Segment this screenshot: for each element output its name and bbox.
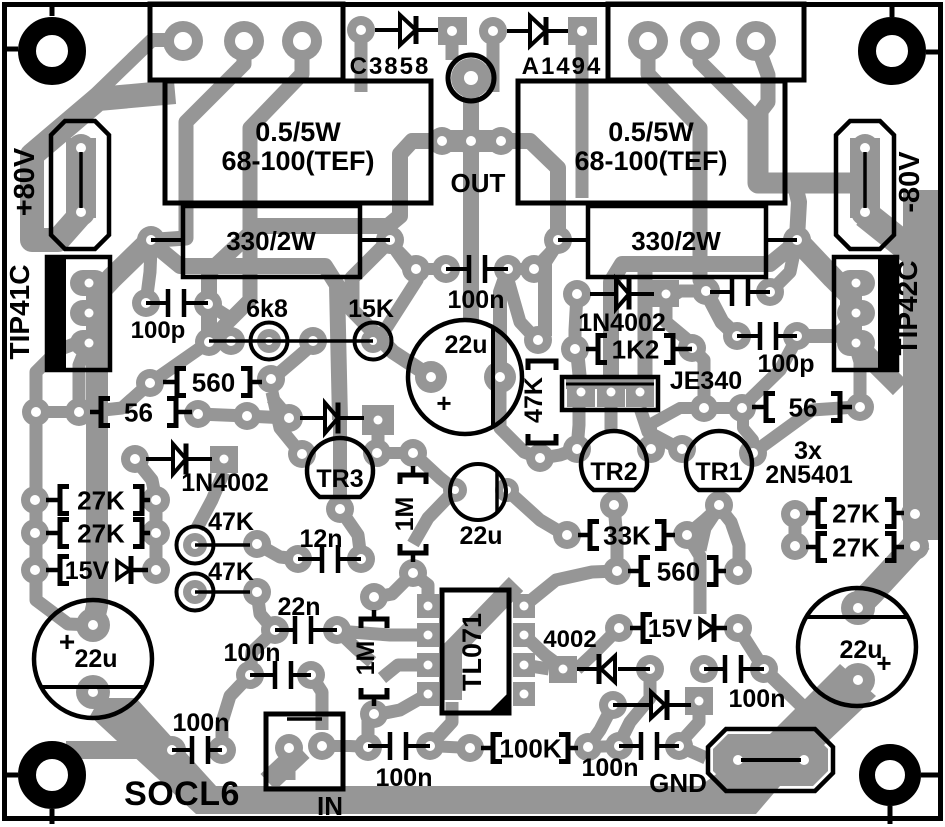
pad OUT ring: [448, 55, 494, 101]
pour 22u-3 to GND: [760, 664, 876, 762]
pad J2-2: [680, 21, 720, 61]
pad 1M-2 top: [360, 583, 388, 611]
resistor 100K: [481, 746, 493, 751]
pad +80V 2: [67, 198, 95, 226]
pad 22u-2 +: [443, 478, 467, 502]
pad 56-1 right: [184, 400, 212, 428]
capacitor 22u-2: [450, 464, 506, 520]
zener 15V-2: [643, 615, 652, 642]
pad 1K2 right: [678, 334, 706, 362]
wire JE340 pin3 to TR1: [640, 408, 678, 448]
wire hole BL stub bottom: [50, 809, 55, 824]
trimmer 6k8: [251, 323, 288, 360]
resistor R-emitter-2 0.5/5W: [518, 81, 785, 203]
resistor 27K-3: [806, 511, 818, 516]
svg-text:TR1: TR1: [695, 458, 742, 486]
pad D4 anode: [563, 280, 591, 308]
pad 6k8 wiper: [257, 329, 281, 353]
pad -80V 2: [851, 198, 879, 226]
pad 22u-4 -: [76, 675, 110, 709]
wire 100n to 330 right: [534, 244, 558, 269]
wire C-r1 left stub: [666, 291, 706, 300]
wire 1N4002-1 cathode to 47K: [197, 472, 224, 528]
wire R330-1 lead right: [360, 238, 390, 242]
wire -80V to right band: [865, 214, 920, 258]
svg-text:100n: 100n: [376, 764, 433, 792]
pad TL071 pin7: [513, 623, 535, 647]
wire left bus through 27K pads: [36, 410, 93, 625]
wire 330/2W right pad down to 22u: [352, 240, 431, 377]
transistor TIP41C body: [47, 257, 110, 370]
pad 100n-lm l: [236, 661, 264, 689]
svg-text:2N5401: 2N5401: [765, 461, 853, 489]
wire TL071 pin2 left: [380, 694, 428, 714]
wire 22u-1 right down: [500, 377, 540, 458]
wire -80V pad strip: [850, 138, 880, 218]
wire 56-2 left pads: [704, 402, 742, 414]
svg-text:56: 56: [124, 398, 153, 428]
pad 560-1 right: [257, 365, 285, 393]
pad 22u-3 +: [841, 591, 875, 625]
pad 22n l: [261, 616, 289, 644]
svg-text:47K: 47K: [208, 508, 254, 536]
wire 100n mid left pair: [416, 263, 446, 275]
wire out center column: [463, 92, 479, 322]
pad OUT row 3: [487, 127, 515, 155]
wire 15V-2 left to diode pad: [577, 628, 619, 669]
pad 47K-2 right: [243, 578, 271, 606]
pad 27K-4 l: [781, 532, 809, 560]
pad TR2 b: [600, 491, 628, 519]
svg-text:+80V: +80V: [9, 147, 41, 216]
wire 330/2W left to rail: [93, 240, 151, 623]
pad 22u-2 -: [495, 478, 519, 502]
svg-text:TR2: TR2: [590, 458, 637, 486]
wire 100n mid right pair: [508, 263, 534, 275]
capacitor 100n right: [704, 667, 725, 671]
svg-text:A1494: A1494: [522, 53, 603, 80]
wire 330-2 rail to JE340 pin3: [641, 268, 645, 390]
pad 6k8-15K mid: [299, 327, 327, 355]
pad TL071 pin5: [513, 682, 535, 706]
pad 22u-4 +: [76, 608, 110, 642]
wire 330-2 left to 47K top: [545, 242, 558, 336]
wire 56 left link: [36, 406, 79, 418]
pad TL071 pin3: [417, 653, 439, 677]
diode D3 1N4002 left: [146, 457, 173, 461]
wire 330/2W-2 left to rail: [797, 240, 851, 330]
pad 27K-1 r: [142, 486, 170, 514]
wire +80V wide rail: [32, 92, 175, 240]
pad 12n l: [284, 545, 312, 573]
pad -80V 1: [851, 134, 879, 162]
pad TR2 e: [563, 435, 591, 463]
wire 100K right pads: [588, 746, 619, 747]
pad TL071 pin8: [513, 594, 535, 618]
wire 47K-2 to 22n: [257, 592, 272, 628]
pad 27K-1 l: [21, 486, 49, 514]
pad TIP41C 2: [70, 300, 108, 326]
pad TIP42C 2: [837, 300, 875, 326]
svg-text:1N4002: 1N4002: [578, 309, 666, 337]
pad IN 1: [275, 734, 303, 762]
pad TIP42C 3: [837, 330, 875, 356]
pad OUT row 2: [457, 127, 485, 155]
pad TL071 pin4: [417, 682, 439, 706]
pad 100n-b l: [354, 733, 382, 761]
capacitor 22u-4: [34, 600, 152, 718]
connector -80V: [836, 121, 894, 249]
resistor 330/2W left: [183, 206, 360, 277]
svg-text:15V: 15V: [648, 615, 693, 643]
wire 100n-r to pour: [764, 669, 818, 722]
diode D1 C3858 drive: [375, 28, 400, 32]
wire TR3 vertical: [333, 420, 347, 505]
pad TR3 e: [288, 440, 316, 468]
capacitor 100n left-mid: [250, 673, 275, 677]
pad OUT: [451, 58, 491, 98]
diode D6 4002a: [577, 667, 597, 671]
pad J1-3: [282, 21, 322, 61]
pad 56-2 left: [728, 394, 756, 422]
capacitor 100p left: [146, 301, 168, 305]
wire 100n-bl chain: [222, 675, 250, 750]
pad 22u-1 -: [484, 361, 516, 393]
pad C-r1 right: [756, 278, 784, 306]
pad node A: [195, 328, 223, 356]
resistor 1K2: [586, 347, 598, 352]
capacitor 12n: [298, 557, 322, 561]
pad D7 cathode: [685, 687, 713, 715]
pad TR3 b: [326, 495, 354, 523]
svg-text:330/2W: 330/2W: [226, 226, 316, 256]
pad 560-2 l: [603, 557, 631, 585]
svg-text:4002: 4002: [543, 626, 596, 653]
connector GND lug: [708, 729, 833, 791]
wire TR1 base to node: [700, 507, 719, 550]
svg-text:22u: 22u: [74, 645, 117, 673]
diode D5: [300, 416, 325, 420]
pad TR1 e: [668, 435, 696, 463]
pad D6 anode: [636, 655, 664, 683]
wire R330-2 lead left: [558, 238, 588, 242]
wire TR1 base up: [743, 407, 753, 453]
pad 22n r: [323, 616, 351, 644]
pad J1-2: [224, 21, 264, 61]
regulator JE340 body: [562, 377, 658, 410]
wire TR1 collector down: [719, 507, 739, 570]
capacitor C-r1 right: [710, 290, 732, 294]
wire hole BL stub left: [2, 773, 18, 778]
svg-text:TIP42C: TIP42C: [892, 261, 923, 356]
pad J1-1: [163, 21, 203, 61]
wire connector J1 pad3 down: [209, 42, 302, 342]
svg-text:JE340: JE340: [670, 367, 742, 395]
pad JE340 1: [567, 377, 595, 407]
wire 1N4002-2 cathode down: [666, 296, 692, 348]
wire J2 pad3 down: [756, 42, 768, 115]
svg-text:100n: 100n: [582, 754, 639, 782]
svg-text:33K: 33K: [603, 521, 651, 551]
pad D3 anode: [121, 445, 149, 473]
svg-text:27K: 27K: [77, 519, 125, 549]
wire 100n-m to 22u-1: [500, 269, 508, 377]
wire A1494 anode tail: [576, 42, 589, 198]
svg-text:47K: 47K: [520, 377, 548, 423]
resistor 560-2: [628, 569, 641, 574]
wire 330/2W-2 right feed: [795, 185, 799, 238]
resistor 27K-2: [46, 531, 60, 536]
wire 22n right: [337, 630, 372, 662]
resistor 1M-1 vertical: [400, 475, 426, 484]
capacitor 22u-3: [798, 588, 916, 706]
wire diode D5 square down: [372, 434, 385, 453]
pad J2-1: [628, 21, 668, 61]
pad 33K l: [553, 521, 581, 549]
wire TR2 emitter up: [651, 408, 704, 449]
pad 47K-1 right: [243, 530, 271, 558]
wire TL071 pin3 left: [382, 665, 428, 678]
pad JE340 2: [597, 377, 625, 407]
wire 100n-b to TL071: [430, 702, 452, 746]
svg-text:27K: 27K: [77, 486, 125, 516]
svg-text:100p: 100p: [131, 317, 186, 344]
resistor 47K-1 vertical preset: [177, 527, 214, 564]
wire right band: [903, 190, 941, 540]
wire TL071 pin5 to 560-2: [524, 571, 617, 606]
pad 100n-m 4: [520, 255, 548, 283]
svg-text:56: 56: [789, 393, 818, 423]
pour ground bottom band: [90, 698, 792, 814]
wire -80V rail: [758, 112, 855, 183]
wire OUT row right: [501, 141, 558, 240]
pad GND 1: [724, 746, 752, 774]
pad TL071 pin6: [513, 653, 535, 677]
svg-text:68-100(TEF): 68-100(TEF): [221, 146, 374, 176]
pad IN 2: [308, 732, 336, 760]
pad 22u-1 +: [415, 361, 447, 393]
wire diode D5 left: [272, 398, 289, 418]
svg-text:22n: 22n: [277, 593, 320, 621]
pad 560-2 r: [724, 557, 752, 585]
transistor TR1: [686, 431, 752, 490]
resistor 56-1: [90, 410, 101, 415]
wire TL071 pin1 to 22n: [337, 630, 428, 635]
wire 22u-4 in: [85, 688, 101, 692]
pad 15V-2 r: [724, 614, 752, 642]
wire 330-2 bottom rail: [611, 242, 797, 390]
wire A1494 pad tail: [487, 43, 500, 92]
svg-text:+: +: [876, 648, 891, 678]
pad 100K l: [456, 734, 484, 762]
pad TIP42C 1: [837, 270, 875, 296]
trimmer 15K: [355, 323, 392, 360]
svg-text:560: 560: [192, 368, 235, 398]
pad J2-3: [736, 21, 776, 61]
capacitor 22n: [275, 628, 295, 632]
wire JE340 pin1 to TR2: [577, 393, 579, 449]
wire IN pour entry: [268, 750, 302, 782]
pad 47K-1 wiper: [183, 533, 207, 557]
wire TR3 right to 1M-1: [377, 447, 413, 459]
wire TL071 pin7 right: [524, 665, 549, 669]
wire OUT row to middle: [209, 141, 442, 342]
svg-text:100n: 100n: [224, 639, 281, 667]
pad D4 cathode: [652, 280, 679, 307]
wire C-r1 up to 330-2: [770, 248, 795, 292]
wire 56-1 to D5 anode: [198, 414, 287, 418]
pad 1M-2 bottom: [360, 700, 388, 728]
wire 1N4002-1 anode: [135, 459, 156, 500]
wire diode 4002b right down: [679, 703, 699, 744]
pad 100p-2 right: [783, 322, 811, 350]
wire 100n to 330 pad: [392, 244, 416, 269]
wire 1K2 left to JE340 pin1: [577, 350, 581, 390]
pad D2 cathode: [568, 17, 597, 45]
pad 100n-r l: [690, 655, 718, 683]
pad 27K-2 l: [21, 519, 49, 547]
opamp TL071 body: [442, 590, 509, 713]
wire C3858 anode tail: [446, 42, 459, 60]
pad 100n-m 1: [402, 255, 430, 283]
pad 560-1 left: [136, 369, 164, 397]
mounting hole bottom-right: [867, 752, 913, 798]
svg-text:1M: 1M: [352, 641, 380, 676]
wire OUT pads bridge: [440, 130, 502, 152]
pad R330-2 right: [783, 226, 811, 254]
wire 27K-34 left pair: [789, 514, 802, 546]
wire 100K row link: [430, 746, 470, 748]
pad C-r1 left: [692, 277, 720, 305]
svg-text:27K: 27K: [832, 533, 880, 563]
pad TIP41C 3: [70, 330, 108, 356]
resistor 47K-2 preset: [177, 574, 214, 611]
pad +80V 1: [67, 134, 95, 162]
pad D5 cathode: [362, 405, 394, 435]
wire 560-1 to 56 row: [85, 383, 150, 412]
pad 15V-2 l: [605, 614, 633, 642]
wire 560-1 left to node A: [153, 344, 206, 381]
pad 56-1 left: [65, 398, 93, 426]
diode D2 A1494 drive: [507, 29, 530, 33]
wire 33K right to TR1: [687, 507, 719, 535]
wire +80V pad strip: [66, 138, 96, 218]
pad OUT row 1: [428, 127, 456, 155]
svg-text:68-100(TEF): 68-100(TEF): [574, 146, 727, 176]
pad GND 2: [790, 746, 818, 774]
pad 56-2 right: [846, 393, 874, 421]
wire hole TL stub top: [50, 2, 55, 16]
pad JE340 3: [626, 377, 654, 407]
wire 1M-1 bottom to 1M-2: [376, 573, 413, 597]
wire diode 4002a to bottom row: [619, 669, 650, 744]
pad TR2 c: [637, 435, 665, 463]
capacitor 100n bottom: [368, 744, 390, 748]
resistor 56-2: [752, 405, 766, 410]
svg-text:100K: 100K: [499, 734, 561, 764]
wire -80V internal: [863, 152, 867, 208]
pad TR1 c: [739, 439, 767, 467]
pad 56-2 a: [690, 394, 718, 422]
pad 47K-2 wiper: [183, 580, 207, 604]
wire 27K right pads column: [150, 500, 163, 570]
wire 100n-lm to IN: [311, 675, 322, 730]
wire 1M-1 to 22u-2: [413, 453, 455, 490]
wire 33K to 15V-2: [687, 535, 700, 614]
pad 56-1 via: [233, 402, 261, 430]
svg-text:22u: 22u: [459, 522, 502, 550]
transistor TR3: [307, 438, 373, 497]
resistor 33K: [578, 533, 590, 538]
wire 1K2 right down: [692, 348, 704, 408]
capacitor 100p right: [737, 334, 760, 338]
svg-text:OUT: OUT: [451, 168, 506, 198]
pad D1 cathode: [438, 17, 467, 45]
svg-text:TL071: TL071: [457, 613, 487, 691]
wire left bus upper: [36, 344, 74, 410]
connector J2 speaker right: [608, 4, 804, 80]
wire 100p-1 right to node: [208, 304, 230, 318]
svg-text:GND: GND: [649, 768, 707, 798]
capacitor 100n mid: [446, 267, 469, 271]
svg-text:0.5/5W: 0.5/5W: [255, 117, 341, 147]
pad D5 anode: [275, 404, 303, 432]
pad 27K-3 r: [901, 500, 929, 528]
pad TIP41C 1: [70, 270, 108, 296]
svg-text:100n: 100n: [173, 709, 230, 737]
pad 100n-r2 r: [665, 732, 693, 760]
wire 22u-2 left: [413, 490, 455, 544]
pad 22u-3 -: [841, 663, 875, 697]
svg-text:TR3: TR3: [316, 465, 363, 493]
pad D1 anode: [347, 16, 375, 44]
connector IN: [266, 714, 343, 789]
pad 12n r: [347, 545, 375, 573]
wire TR3 base to 12n: [340, 509, 361, 559]
pad 27K-2 r: [142, 519, 170, 547]
wire 100p-1 up to 330: [146, 248, 151, 303]
wire 100n-lm left: [250, 630, 275, 675]
wire 330-1 bottom rail: [151, 242, 340, 420]
pad 6k8 link: [217, 327, 245, 355]
capacitor 22u-1: [408, 320, 522, 434]
wire 15V-2 to 100n: [738, 628, 764, 669]
mounting hole bottom-left: [27, 750, 77, 800]
capacitor 100n bottom-left: [172, 748, 192, 752]
transistor TIP42C body: [834, 257, 897, 370]
svg-text:1M: 1M: [391, 497, 419, 532]
pad 100K r: [574, 733, 602, 761]
wire +80V feed from connector J1: [38, 40, 182, 150]
wire connector J1 pad2 to 330/2W: [158, 42, 244, 240]
pad 56-1 a: [22, 398, 50, 426]
pour JE340 interior: [566, 379, 654, 389]
wire R330-1 lead left: [151, 238, 183, 242]
pad 1M-1 top: [399, 439, 427, 467]
svg-text:22u: 22u: [444, 331, 487, 359]
svg-text:+: +: [59, 626, 75, 657]
wire TR1 right to 56-2: [753, 407, 856, 453]
svg-text:C3858: C3858: [350, 53, 431, 80]
wire TIP41C base row: [79, 345, 87, 412]
svg-text:100p: 100p: [758, 350, 815, 378]
svg-text:560: 560: [657, 557, 700, 587]
zener 15V-1: [60, 557, 69, 584]
svg-text:SOCL6: SOCL6: [124, 775, 240, 813]
svg-text:12n: 12n: [299, 525, 342, 553]
wire 100n-m to 47K top: [508, 280, 535, 338]
pad D7 anode: [599, 691, 627, 719]
